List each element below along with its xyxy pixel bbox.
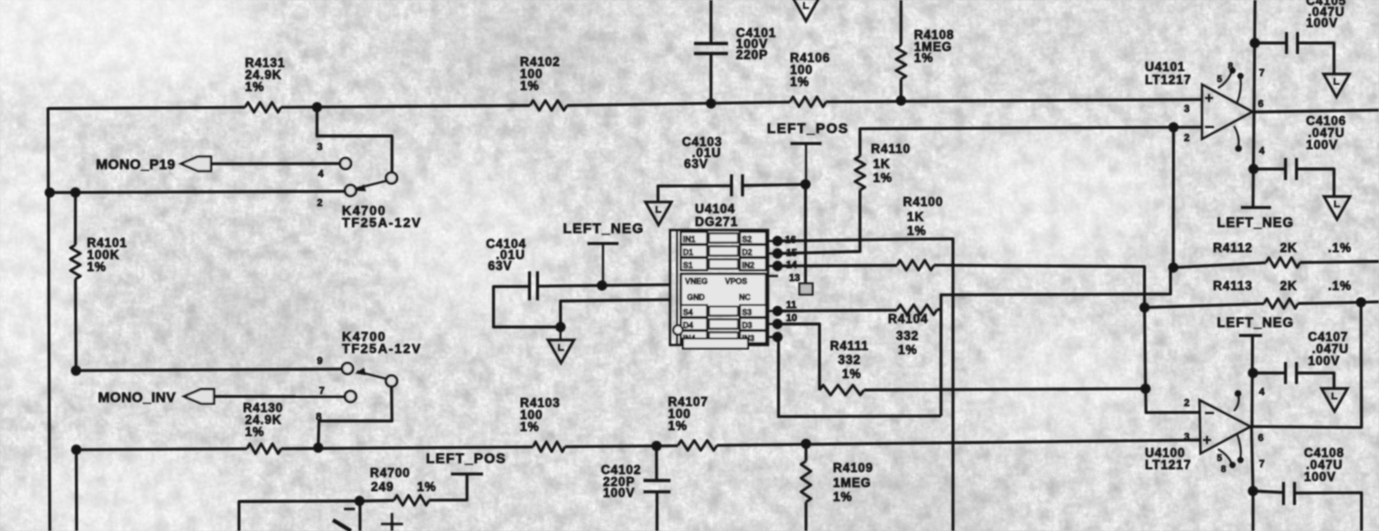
- wire C4101 bottom lead: [710, 55, 713, 104]
- node junction U4104 pin16: [772, 236, 782, 246]
- wire U4101 feedback vertical: [1172, 127, 1175, 267]
- power flag LEFT_POS upper: [791, 144, 822, 185]
- label LEFT_POS upper: [767, 120, 849, 136]
- wire R4110 top lead: [860, 127, 1174, 156]
- relay K4700a armature: [355, 181, 387, 192]
- wire bottom net segment C: [565, 444, 678, 448]
- ground under C4104: [548, 327, 574, 363]
- wire R4101 top lead: [74, 192, 77, 245]
- label C4102 value: [601, 463, 641, 500]
- resistor R4101: [70, 245, 80, 279]
- wire U4104 pin15 run: [778, 190, 861, 254]
- label R4130 value: [243, 401, 283, 439]
- svg-text:1%: 1%: [833, 490, 852, 504]
- wire top net segment B: [281, 106, 530, 108]
- wire R4113 to edge: [1361, 300, 1379, 303]
- pin number 4 relay K4700a: [318, 169, 324, 180]
- label MONO_P19: [96, 156, 175, 172]
- relay K4700b armature: [355, 368, 387, 379]
- svg-text:332: 332: [838, 353, 861, 367]
- svg-text:2: 2: [1184, 133, 1190, 144]
- wire R4113 left: [1145, 304, 1265, 308]
- label R4103 value: [520, 396, 560, 434]
- svg-text:63V: 63V: [684, 157, 708, 171]
- node junction C4107 tap: [1248, 368, 1258, 378]
- pin number 2 U4100: [1184, 398, 1190, 409]
- node junction U4104 pin10: [772, 319, 782, 329]
- node junction C4101 tap: [706, 98, 716, 108]
- pin box VPOS U4104: [800, 284, 813, 295]
- node junction U4104 pin11: [772, 306, 782, 316]
- resistor R4110: [855, 156, 865, 190]
- svg-text:MONO_P19: MONO_P19: [96, 156, 175, 172]
- svg-text:1%: 1%: [873, 171, 892, 185]
- wire C4108 left lead: [1253, 491, 1284, 493]
- svg-text:1%: 1%: [245, 80, 264, 94]
- node MONO_INV signal arrow: [184, 389, 214, 403]
- svg-text:R4109: R4109: [833, 461, 873, 475]
- label relay K4700a: [342, 203, 422, 230]
- svg-text:R4111: R4111: [830, 339, 869, 353]
- wire U4104 pin16 run: [778, 239, 954, 531]
- label LEFT_POS lower: [426, 450, 506, 466]
- wire C4107 left lead: [1253, 372, 1286, 375]
- svg-text:1%: 1%: [898, 343, 917, 357]
- label R4101 value: [87, 236, 127, 274]
- resistor R4108: [896, 45, 906, 79]
- wire feedback U4100: [1251, 302, 1362, 427]
- wire C4107 right lead: [1297, 373, 1335, 389]
- resistor R4106: [790, 97, 826, 107]
- pin number 7 relay K4700b: [319, 386, 325, 397]
- wire U4104 pin10 run: [778, 324, 820, 390]
- relay K4700b pin7 contact: [345, 391, 356, 402]
- resistor R4113: [1264, 299, 1298, 309]
- wire U4101 output: [1253, 110, 1379, 112]
- opamp U4100 minus sign: [1205, 412, 1214, 414]
- svg-text:3: 3: [317, 142, 323, 153]
- wire C4102 bottom lead: [656, 493, 659, 531]
- resistor R4111: [820, 385, 865, 395]
- wire top input net segment A: [48, 107, 245, 108]
- wire C4101 top lead: [710, 0, 713, 42]
- svg-text:100V: 100V: [1304, 470, 1336, 484]
- wire R4104 crossover: [937, 269, 1171, 416]
- node junction relay2 tap: [313, 443, 323, 453]
- ground under C4103: [646, 202, 672, 225]
- wire U4104 pin14 run: [778, 264, 898, 268]
- pin number 6 U4100: [1258, 433, 1264, 444]
- svg-text:R4104: R4104: [888, 312, 928, 326]
- svg-text:4: 4: [318, 169, 324, 180]
- svg-text:1K: 1K: [873, 157, 890, 171]
- pin number 6 U4101: [1258, 99, 1264, 110]
- node MONO_P19 signal arrow: [181, 157, 211, 171]
- pin number 3 U4100: [1184, 432, 1190, 443]
- wire C4105 left lead: [1255, 42, 1287, 45]
- wire R4112 left: [1173, 263, 1266, 268]
- wire relay K4700b pin9 row: [76, 369, 342, 371]
- svg-text:DG271: DG271: [695, 215, 738, 229]
- wire GND jog to U4104: [561, 300, 671, 327]
- svg-text:8: 8: [316, 412, 322, 423]
- ground under C4106: [1324, 197, 1350, 220]
- svg-text:D4: D4: [683, 321, 694, 330]
- wire R4100 to crossover: [934, 265, 1145, 307]
- pin number 8 U4100: [1221, 464, 1227, 474]
- node junction U4104 pin15: [772, 248, 782, 258]
- node junction R4109 tap: [801, 439, 811, 449]
- svg-text:S2: S2: [742, 235, 752, 244]
- svg-text:2K: 2K: [1280, 241, 1297, 255]
- resistor R4100: [897, 260, 934, 270]
- wire U4100 V- vertical: [1251, 336, 1254, 427]
- relay K4700b common contact: [386, 376, 397, 387]
- svg-text:8: 8: [1221, 464, 1227, 474]
- pin number 3 relay K4700a: [317, 142, 323, 153]
- svg-text:9: 9: [317, 356, 323, 367]
- svg-text:1MEG: 1MEG: [833, 476, 871, 490]
- svg-text:.1%: .1%: [1328, 279, 1352, 293]
- svg-text:1%: 1%: [87, 260, 106, 274]
- node junction U4104 pin9: [772, 332, 782, 342]
- svg-text:100V: 100V: [1306, 16, 1338, 30]
- node junction C4103-VPOS: [800, 179, 810, 189]
- label R4108 value: [914, 28, 954, 65]
- wire U4100 V+ vertical: [1252, 427, 1254, 491]
- opamp U4100 triangle: [1200, 400, 1251, 454]
- svg-text:6: 6: [1258, 99, 1264, 110]
- wire C4106 left lead: [1254, 168, 1286, 171]
- pin number 14 U4104: [786, 260, 798, 271]
- node junction C4105 tap: [1250, 38, 1260, 48]
- node junction U4100 pin2: [1140, 384, 1150, 394]
- node junction R4112 row: [1168, 262, 1178, 272]
- label R4102 value: [520, 55, 560, 93]
- label U4101: [1145, 60, 1191, 87]
- wire R4700 left lead: [364, 499, 394, 503]
- wire R4109 top lead: [805, 444, 808, 461]
- node junction U4104 pin14: [772, 261, 782, 271]
- relay K4700b pin9 contact: [342, 363, 353, 374]
- wire bottom feedback from page edge: [239, 501, 355, 531]
- wire U4101 V+ vertical: [1254, 0, 1255, 112]
- svg-text:249: 249: [371, 480, 394, 494]
- svg-text:1%: 1%: [245, 425, 264, 439]
- wire C4103 right lead: [743, 184, 806, 185]
- ground under C4105: [1324, 74, 1350, 97]
- wire mono row: [50, 191, 345, 192]
- capacitor C4101: [694, 44, 728, 54]
- svg-text:LT1217: LT1217: [1145, 458, 1191, 472]
- svg-text:5: 5: [1217, 453, 1223, 463]
- label LEFT_NEG middle: [563, 220, 644, 236]
- wire R4109 bottom lead: [805, 502, 808, 531]
- wire top net segment D: [826, 100, 1202, 102]
- svg-text:1%: 1%: [790, 75, 809, 89]
- pin number 5 U4101: [1217, 74, 1223, 84]
- wire C4104 right lead: [538, 285, 670, 287]
- wire R4113 vertical to pin2 node: [1145, 308, 1146, 389]
- svg-text:LEFT_NEG: LEFT_NEG: [1217, 315, 1294, 330]
- svg-text:MONO_INV: MONO_INV: [98, 389, 176, 405]
- relay K4700a common contact: [386, 173, 397, 184]
- node junction top-left: [312, 102, 322, 112]
- svg-text:1%: 1%: [520, 79, 539, 93]
- label R4700 value: [370, 466, 436, 494]
- pin number 4 U4100: [1259, 387, 1265, 398]
- svg-text:10: 10: [786, 313, 798, 324]
- wire R4101 bottom lead: [74, 279, 77, 371]
- label LEFT_NEG right-upper: [1217, 215, 1294, 230]
- svg-text:1%: 1%: [417, 480, 436, 494]
- label C4103 value: [682, 135, 722, 171]
- wire U4100 pin2 jog: [1146, 389, 1201, 413]
- resistor R4104: [897, 305, 937, 315]
- wire top net segment C: [567, 102, 790, 105]
- capacitor C4103: [732, 174, 743, 196]
- wire R4700 right lead: [429, 474, 467, 500]
- svg-text:U4104: U4104: [695, 202, 735, 216]
- opamp U4102 plus sign: [381, 513, 403, 531]
- wire C4102 top lead: [655, 446, 658, 479]
- power flag LEFT_POS lower: [451, 473, 483, 476]
- svg-text:1%: 1%: [907, 224, 926, 238]
- node junction left rail mono row: [45, 187, 55, 197]
- label R4110 value: [871, 142, 911, 185]
- node junction C4108 tap: [1248, 486, 1258, 496]
- resistor R4107: [678, 440, 717, 450]
- node junction R4113-feedback: [1356, 297, 1366, 307]
- svg-text:5: 5: [1217, 74, 1223, 84]
- resistor R4131: [245, 102, 281, 112]
- pin number 3 U4101: [1184, 104, 1190, 115]
- resistor R4700: [394, 495, 429, 505]
- svg-text:R4100: R4100: [903, 195, 943, 209]
- svg-text:LEFT_POS: LEFT_POS: [426, 450, 506, 466]
- wire U4102 inverting stub: [359, 501, 362, 531]
- pin number 11 U4104: [786, 300, 797, 311]
- svg-text:S4: S4: [683, 308, 693, 317]
- label R4104 value: [888, 312, 928, 357]
- node junction C4102 tap: [651, 441, 661, 451]
- ground under C4107: [1322, 389, 1348, 412]
- label relay K4700b: [342, 329, 422, 356]
- svg-text:R4113: R4113: [1213, 279, 1253, 293]
- svg-text:7: 7: [1259, 459, 1265, 470]
- svg-text:8: 8: [1228, 61, 1234, 71]
- pin number 10 U4104: [786, 313, 798, 324]
- power flag LEFT_NEG right-lower: [1239, 334, 1262, 337]
- opamp U4101 plus sign: [1205, 94, 1213, 102]
- svg-text:220P: 220P: [736, 48, 768, 62]
- wire MONO_INV to pin7: [214, 395, 345, 398]
- wire R4108 bottom lead: [900, 79, 903, 101]
- pin number 4 U4101: [1259, 146, 1265, 157]
- pin number 13 U4104: [789, 273, 801, 284]
- svg-text:13: 13: [789, 273, 801, 284]
- wire x76 rail lower: [75, 450, 78, 531]
- svg-text:1%: 1%: [842, 367, 861, 381]
- pin number 8 U4101: [1228, 61, 1234, 71]
- pin number 16 U4104: [785, 235, 797, 246]
- svg-text:100V: 100V: [1308, 354, 1340, 368]
- opamp U4102 triangle corner: [333, 520, 351, 531]
- pin number 8 relay K4700b: [316, 412, 322, 423]
- power flag LEFT_NEG middle: [588, 244, 619, 286]
- pin number 7 U4101: [1259, 68, 1265, 79]
- label U4100: [1145, 446, 1191, 472]
- svg-text:D3: D3: [742, 321, 753, 330]
- label C4108 value: [1304, 446, 1344, 484]
- wire bottom net segment A: [76, 447, 247, 451]
- label LEFT_NEG right-lower: [1217, 315, 1294, 330]
- opamp U4101 triangle: [1202, 85, 1253, 140]
- node junction R4101 top: [70, 187, 80, 197]
- label U4104: [695, 202, 738, 229]
- svg-text:IN1: IN1: [683, 235, 696, 244]
- wire C4104 loop: [494, 286, 557, 327]
- wire R4113 right: [1298, 302, 1361, 303]
- wire R4112 right: [1300, 262, 1379, 263]
- wire C4105 right lead: [1298, 43, 1335, 75]
- label R4111 value: [830, 339, 869, 381]
- svg-text:S1: S1: [683, 261, 693, 270]
- opamp U4102 minus sign: [344, 508, 355, 511]
- label C4106 value: [1306, 114, 1346, 152]
- svg-text:U4101: U4101: [1145, 60, 1185, 74]
- label R4109 value: [833, 461, 873, 504]
- ground top center: [793, 0, 819, 21]
- opamp U4100 plus sign: [1203, 436, 1211, 444]
- node junction relay2 row: [71, 365, 81, 375]
- svg-text:100V: 100V: [1306, 138, 1338, 152]
- power flag LEFT_NEG right-upper: [1241, 206, 1271, 209]
- wire relay K4700a pin3 branch: [317, 107, 392, 172]
- wire U4101 pin2 stub: [1174, 126, 1203, 129]
- wire relay K4700b common branch: [318, 387, 392, 448]
- relay K4700a pin2 contact: [345, 185, 356, 196]
- wire MONO_P19 to pin4: [211, 162, 340, 165]
- node junction U4102 inverting: [354, 496, 364, 506]
- svg-text:TF25A-12V: TF25A-12V: [342, 215, 422, 230]
- label R4112 value: [1213, 241, 1352, 255]
- opamp U4100 comp curls: [1218, 390, 1244, 468]
- node junction C4106 tap: [1248, 164, 1258, 174]
- svg-text:11: 11: [786, 300, 797, 311]
- wire U4104 pin11 run: [778, 309, 898, 313]
- node junction GND loop: [555, 322, 565, 332]
- wire VPOS down to U4104: [804, 184, 807, 289]
- pin number 9 relay K4700b: [317, 356, 323, 367]
- svg-text:7: 7: [1259, 68, 1265, 79]
- svg-text:100V: 100V: [603, 486, 635, 500]
- relay K4700a pin4 contact: [340, 158, 351, 169]
- label MONO_INV: [98, 389, 176, 405]
- svg-text:LEFT_NEG: LEFT_NEG: [563, 220, 644, 236]
- opamp U4101 comp curls: [1218, 67, 1244, 152]
- svg-text:LEFT_POS: LEFT_POS: [767, 120, 849, 136]
- svg-text:1%: 1%: [668, 419, 687, 433]
- pin number 15 U4104: [786, 248, 798, 259]
- svg-text:1%: 1%: [914, 51, 933, 65]
- svg-text:TF25A-12V: TF25A-12V: [342, 341, 422, 356]
- svg-text:LT1217: LT1217: [1145, 73, 1191, 87]
- capacitor C4108: [1284, 482, 1295, 505]
- svg-text:NC: NC: [739, 293, 751, 302]
- resistor R4102: [530, 100, 567, 110]
- label C4107 value: [1308, 330, 1349, 368]
- node junction U4101 pin2: [1168, 122, 1178, 132]
- svg-text:.1%: .1%: [1328, 241, 1352, 255]
- label C4104 value: [486, 237, 526, 273]
- wire C4106 right lead: [1297, 169, 1335, 197]
- node junction R4113 row: [1139, 302, 1149, 312]
- label R4107 value: [668, 395, 708, 433]
- wire U4104 right pin stubs: [768, 241, 778, 337]
- resistor R4112: [1266, 258, 1300, 268]
- resistor R4109: [801, 461, 811, 502]
- analog switch U4104: [670, 230, 768, 349]
- wire left vertical rail: [48, 108, 50, 531]
- wire bottom net segment B: [281, 447, 533, 449]
- svg-text:D2: D2: [742, 248, 753, 257]
- wire R4108 top lead: [900, 0, 903, 45]
- capacitor C4105: [1287, 32, 1298, 54]
- svg-text:4: 4: [1259, 146, 1265, 157]
- svg-text:332: 332: [896, 329, 919, 343]
- pin number 7 U4100: [1259, 459, 1265, 470]
- svg-text:GND: GND: [687, 293, 705, 302]
- capacitor C4104: [530, 271, 538, 300]
- svg-text:D1: D1: [683, 248, 694, 257]
- label R4113 value: [1213, 279, 1352, 293]
- svg-text:IN2: IN2: [742, 261, 755, 270]
- label C4101 value: [736, 26, 776, 62]
- node junction R4108 tap: [896, 95, 906, 105]
- capacitor C4107: [1286, 362, 1297, 384]
- svg-text:4: 4: [1259, 387, 1265, 398]
- svg-text:2: 2: [1184, 398, 1190, 409]
- wire bottom net segment D: [717, 440, 1201, 445]
- capacitor C4106: [1286, 158, 1297, 180]
- wire U4104 pin9 run: [778, 337, 942, 417]
- label R4131 value: [245, 56, 285, 94]
- svg-text:3: 3: [1184, 104, 1190, 115]
- node junction bottom rail left: [71, 445, 81, 455]
- wire U4100 V+ to edge: [1252, 491, 1255, 531]
- svg-text:R4110: R4110: [871, 142, 911, 156]
- svg-text:VNEG: VNEG: [685, 277, 708, 286]
- wire C4108 right lead: [1295, 493, 1362, 531]
- wire U4101 V- vertical: [1253, 112, 1254, 208]
- label C4105 value: [1306, 0, 1346, 30]
- svg-text:2K: 2K: [1280, 279, 1297, 293]
- pin number 2 U4101: [1184, 133, 1190, 144]
- svg-text:63V: 63V: [488, 259, 512, 273]
- resistor R4130: [247, 444, 281, 454]
- wire R4111 to U4100: [864, 389, 1146, 390]
- svg-text:1%: 1%: [520, 420, 539, 434]
- svg-text:LEFT_NEG: LEFT_NEG: [1217, 215, 1294, 230]
- svg-text:R4112: R4112: [1213, 241, 1253, 255]
- label R4106 value: [790, 51, 830, 89]
- resistor R4103: [533, 442, 565, 452]
- svg-text:6: 6: [1258, 433, 1264, 444]
- svg-text:R4700: R4700: [370, 466, 410, 480]
- opamp U4101 minus sign: [1205, 126, 1214, 128]
- wire C4103 left lead: [658, 186, 732, 202]
